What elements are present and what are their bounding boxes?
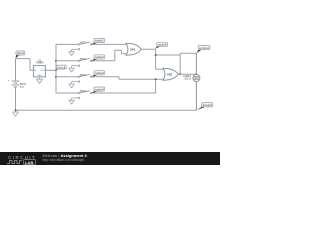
node label input	[16, 51, 25, 58]
svg-text:output: output	[199, 46, 209, 50]
svg-text:OR2: OR2	[167, 72, 173, 76]
svg-text:5 V: 5 V	[20, 85, 24, 89]
wire OR1 output branch to lamp top	[156, 53, 197, 75]
node label clock	[55, 65, 66, 70]
junction OR1 branch	[155, 54, 157, 56]
svg-text:BIT4: BIT4	[80, 89, 86, 93]
svg-text:ground: ground	[203, 103, 213, 107]
footer bar	[0, 152, 220, 165]
or-gate OR1	[126, 43, 141, 55]
svg-text:TIMER: TIMER	[35, 61, 43, 65]
svg-text:node5: node5	[158, 43, 167, 47]
svg-text:input: input	[17, 51, 24, 55]
ground GND3 at switch BIT1	[69, 49, 75, 55]
svg-text:BIT3: BIT3	[80, 73, 86, 77]
ground GND2 under U1	[36, 77, 43, 84]
junction OR2 output branch	[179, 73, 181, 75]
wire row1 to OR1 input A	[92, 43, 129, 45]
wire input corner to battery top	[16, 59, 31, 80]
ground GND1 under battery	[12, 110, 19, 116]
svg-text:GND: GND	[38, 75, 43, 77]
svg-text:node2: node2	[95, 55, 104, 59]
svg-text:OR1: OR1	[130, 47, 136, 51]
or-gate OR2	[163, 68, 178, 80]
switch BIT1	[72, 41, 92, 51]
svg-text:clock: clock	[57, 65, 66, 69]
wire row2 to OR1 input B	[92, 50, 129, 61]
wire U1 output to bus	[45, 69, 56, 71]
wire OR2 output to lamp	[178, 73, 196, 75]
wire row3 left	[56, 76, 78, 78]
junction battery-bus	[15, 109, 17, 111]
junction U1 output	[55, 69, 57, 71]
wire row3 to OR2 input B	[92, 77, 164, 80]
switch BIT2	[72, 57, 92, 66]
timer U1 box	[33, 58, 45, 77]
node label node5 at OR1 output	[155, 42, 167, 49]
junction bus row2	[55, 60, 57, 62]
ground GND5 at switch BIT3	[69, 82, 75, 88]
wire row2 left	[56, 60, 78, 62]
switch BIT3	[72, 73, 92, 82]
wire battery to bottom bus	[15, 87, 17, 110]
svg-text:node3: node3	[95, 71, 104, 75]
logo circuitlab wordmark	[8, 155, 36, 160]
junction bus row3	[55, 76, 57, 78]
node label node4	[91, 87, 104, 93]
lamp LAMP1 100 ohm	[183, 53, 200, 110]
junction lamp top	[195, 73, 197, 75]
junction row3-row4	[155, 78, 157, 80]
node label node3	[91, 71, 104, 77]
footer credits	[43, 153, 87, 158]
node label node2	[91, 55, 104, 61]
node label ground	[197, 103, 213, 110]
wire row4 left	[56, 92, 78, 94]
svg-text:100 Ω: 100 Ω	[184, 78, 191, 81]
wire to U1 input pin	[30, 59, 33, 71]
svg-text:BIT2: BIT2	[80, 57, 86, 61]
node label output	[197, 46, 211, 54]
svg-text:BIT1: BIT1	[80, 41, 86, 45]
ground GND4 at switch BIT2	[69, 66, 75, 72]
ground GND6 at switch BIT4	[69, 98, 75, 104]
wire OR1 output	[141, 49, 164, 69]
battery BAT1 5 V	[8, 79, 27, 89]
switch BIT4	[72, 89, 92, 99]
wire lamp bottom riser	[195, 81, 197, 110]
wire bottom bus	[16, 109, 197, 111]
wire row1 left	[56, 43, 78, 45]
wire vertical distribution bus	[55, 44, 57, 93]
logo waveform and LAB box	[6, 159, 37, 165]
node label node1	[91, 38, 104, 44]
svg-text:node1: node1	[95, 39, 104, 43]
svg-text:node4: node4	[95, 87, 104, 91]
wire row4 riser to OR2 input B	[92, 79, 156, 93]
